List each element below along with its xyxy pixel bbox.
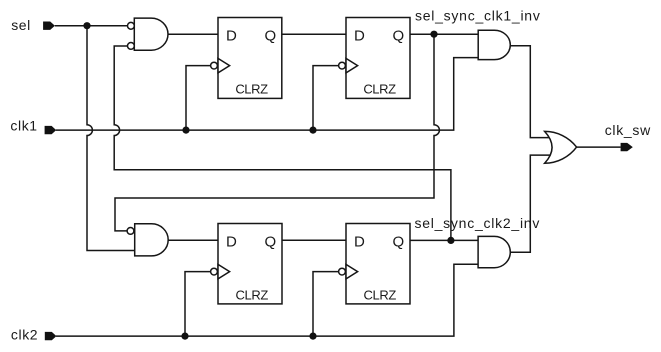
svg-text:CLRZ: CLRZ bbox=[235, 82, 268, 97]
svg-text:D: D bbox=[354, 234, 365, 251]
svg-text:sel_sync_clk1_inv: sel_sync_clk1_inv bbox=[415, 8, 541, 24]
svg-text:Q: Q bbox=[393, 234, 405, 251]
svg-text:clk_sw: clk_sw bbox=[605, 122, 651, 138]
svg-text:D: D bbox=[226, 234, 237, 251]
svg-text:D: D bbox=[226, 28, 237, 45]
svg-text:clk2: clk2 bbox=[11, 327, 38, 343]
svg-text:sel: sel bbox=[11, 17, 30, 33]
svg-text:CLRZ: CLRZ bbox=[364, 288, 397, 303]
svg-text:Q: Q bbox=[265, 234, 277, 251]
svg-text:CLRZ: CLRZ bbox=[236, 288, 269, 303]
svg-text:clk1: clk1 bbox=[10, 118, 37, 134]
svg-text:D: D bbox=[354, 28, 365, 45]
svg-text:Q: Q bbox=[393, 28, 405, 45]
svg-text:CLRZ: CLRZ bbox=[363, 82, 396, 97]
svg-text:Q: Q bbox=[265, 28, 277, 45]
svg-text:sel_sync_clk2_inv: sel_sync_clk2_inv bbox=[415, 215, 541, 231]
